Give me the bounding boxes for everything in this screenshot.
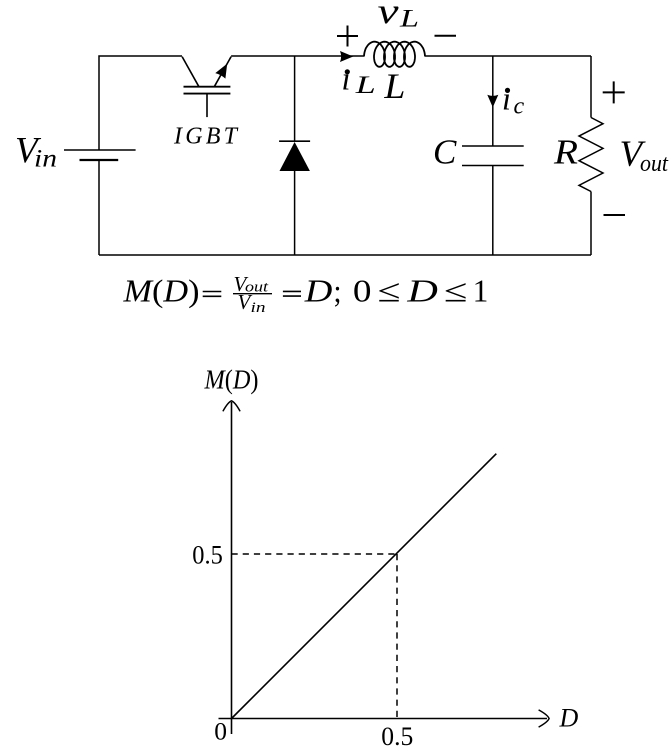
battery Vin long plate	[64, 149, 136, 151]
x-axis	[219, 718, 548, 720]
resistor R zigzag	[579, 118, 603, 192]
diode branch wire top	[294, 56, 296, 141]
svg-text:0.5: 0.5	[192, 541, 223, 570]
y-axis	[231, 402, 233, 734]
capacitor branch wire bottom	[492, 166, 494, 256]
right wire top	[590, 56, 592, 118]
svg-text:in: in	[251, 300, 266, 316]
minus sign Vout	[604, 214, 626, 216]
svg-text:0: 0	[353, 273, 372, 309]
arrow i_c on capacitor branch	[487, 95, 498, 108]
right wire bottom	[590, 192, 592, 256]
svg-text:1: 1	[473, 273, 489, 309]
svg-text:c: c	[514, 93, 525, 119]
IGBT gate bar	[184, 93, 231, 95]
equation M(D) = Vout/Vin = D; 0 <= D <= 1	[122, 272, 488, 316]
svg-text:R: R	[553, 133, 578, 172]
svg-text:ı: ı	[502, 82, 511, 118]
wire top mid (IGBT right to inductor)	[231, 55, 364, 57]
diagonal M(D)=D line	[232, 454, 497, 719]
svg-text:C: C	[433, 133, 457, 172]
svg-text:M(D): M(D)	[204, 365, 259, 395]
IGBT emitter diagonal	[214, 57, 231, 87]
IGBT collector diagonal	[182, 57, 199, 87]
graph	[219, 401, 550, 734]
svg-text:ı: ı	[342, 61, 351, 97]
svg-text:L: L	[354, 72, 375, 99]
svg-text:D: D	[559, 704, 579, 733]
svg-text:≤: ≤	[377, 273, 400, 309]
svg-text:0.5: 0.5	[381, 722, 413, 751]
minus sign vL	[435, 35, 457, 37]
capacitor C top plate	[462, 145, 524, 147]
svg-text:D: D	[304, 273, 333, 309]
capacitor C bottom plate	[462, 165, 524, 167]
diode branch wire bottom	[294, 171, 296, 255]
svg-text:L: L	[383, 66, 405, 106]
wire bottom	[99, 254, 591, 256]
svg-text:;: ;	[334, 273, 342, 309]
inductor L coil	[364, 42, 425, 67]
battery Vin short plate	[80, 159, 119, 161]
wire left bottom	[98, 160, 100, 255]
plus sign vL	[337, 26, 358, 47]
svg-text:0: 0	[214, 717, 227, 746]
svg-text:v: v	[378, 0, 399, 31]
svg-text:IGBT: IGBT	[173, 124, 240, 150]
svg-text:≤: ≤	[444, 273, 468, 309]
diode triangle	[280, 142, 310, 171]
svg-text:D: D	[406, 273, 438, 309]
capacitor branch wire top	[492, 56, 494, 146]
IGBT gate lead	[206, 94, 208, 118]
wire top right (inductor to corner)	[425, 55, 591, 57]
y-axis arrowhead	[223, 401, 240, 412]
svg-text:L: L	[399, 6, 419, 33]
IGBT emitter arrowhead	[215, 64, 227, 79]
arrow i_L on wire	[340, 51, 353, 62]
dashed horizontal at 0.5	[232, 553, 398, 555]
wire left top + top-left segment	[99, 56, 182, 150]
x-axis arrowhead	[539, 710, 550, 727]
dashed vertical at 0.5	[396, 554, 398, 719]
svg-text:M(D): M(D)	[122, 273, 199, 309]
plus sign Vout	[603, 81, 625, 103]
IGBT body bar	[184, 86, 231, 88]
svg-text:in: in	[34, 146, 57, 173]
diode cathode bar	[279, 140, 310, 142]
svg-text:out: out	[640, 151, 669, 177]
